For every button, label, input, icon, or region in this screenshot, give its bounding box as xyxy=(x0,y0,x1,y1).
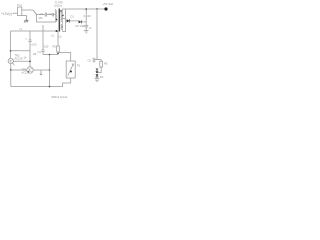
left rail to bottom xyxy=(10,70,12,87)
pot arrow xyxy=(68,64,74,76)
capacitor C1 xyxy=(45,13,46,17)
svg-text:n2: n2 xyxy=(59,34,62,38)
capacitor C6 in x30 line xyxy=(28,31,31,67)
emitter arrow xyxy=(40,70,42,75)
wire Q1 base to x30 xyxy=(14,60,31,62)
wire y70 to Q2 xyxy=(11,69,27,71)
Q1 emitter arrow xyxy=(13,63,15,66)
transformer T1 primary winding xyxy=(56,9,57,22)
wire cap row xyxy=(37,14,56,16)
wire cap to rail xyxy=(95,59,101,61)
junction dot xyxy=(96,72,98,74)
svg-text:0.02: 0.02 xyxy=(32,43,38,47)
phase dot primary xyxy=(56,19,58,21)
svg-text:D4: D4 xyxy=(100,75,104,79)
junction dot x49.5 y70 xyxy=(49,69,51,71)
svg-text:n1: n1 xyxy=(51,33,54,37)
Q2 emitter blob xyxy=(28,71,29,72)
svg-text:0.1/16: 0.1/16 xyxy=(84,14,92,18)
svg-text:+C1: +C1 xyxy=(39,12,44,16)
phase dot secondary mid xyxy=(62,15,63,16)
wire R5 bottom xyxy=(97,60,101,73)
junction dot rail xyxy=(96,8,97,9)
svg-text:C4: C4 xyxy=(38,50,42,54)
diode D4 xyxy=(96,74,99,77)
junction dot bottom xyxy=(49,86,51,88)
regulator box U1 xyxy=(18,7,22,16)
svg-text:s1: s1 xyxy=(61,26,64,29)
svg-text:D1: D1 xyxy=(71,15,75,19)
svg-text:1u: 1u xyxy=(89,27,92,30)
svg-text:R5: R5 xyxy=(104,61,108,65)
junction dot x49.5 xyxy=(49,54,51,56)
switch S1 xyxy=(33,10,37,15)
transformer T1 core xyxy=(59,9,61,32)
svg-text:D2 1N4: D2 1N4 xyxy=(76,24,85,28)
transistor Q1 circle xyxy=(8,58,13,63)
transformer T1 secondary winding xyxy=(61,9,62,32)
junction dot bus core xyxy=(56,30,58,32)
junction dot x58 xyxy=(57,53,59,55)
junction dot left rail xyxy=(10,50,12,52)
svg-text:1k: 1k xyxy=(24,56,27,60)
wire input to box xyxy=(13,12,18,14)
transistor Q1 internals xyxy=(10,60,13,63)
ground C3 xyxy=(84,31,89,34)
svg-text:R6: R6 xyxy=(33,52,37,56)
diode D1 xyxy=(67,19,70,22)
node line y54.5 xyxy=(43,54,58,56)
wire box bottom xyxy=(22,16,27,21)
output node dot xyxy=(104,7,107,10)
wire to ground xyxy=(96,77,98,79)
resistor R5 box xyxy=(100,61,103,67)
svg-text:600x2 circuit: 600x2 circuit xyxy=(52,95,68,99)
pot box P1 xyxy=(66,61,75,78)
bus y31 xyxy=(11,30,59,32)
svg-text:AC128: AC128 xyxy=(15,56,23,60)
wire x43 from bus xyxy=(42,25,45,55)
svg-text:+12V(c)−: +12V(c)− xyxy=(1,12,14,16)
wire to cap C3 xyxy=(81,21,86,23)
svg-text:R3: R3 xyxy=(53,44,57,48)
wire secondary mid tap xyxy=(62,18,65,20)
wire y52.5 to pot xyxy=(58,53,71,62)
wire x49.5 down xyxy=(49,55,51,87)
wire y50.8 xyxy=(11,50,31,52)
capacitor C2 xyxy=(52,13,53,16)
chassis ground xyxy=(24,20,28,22)
capacitor C3 xyxy=(84,22,88,31)
transistor Q2 internals xyxy=(29,68,32,72)
wire Q1 emitter down xyxy=(10,64,12,70)
svg-text:c: c xyxy=(26,38,28,41)
junction dot x30 y61 xyxy=(29,61,31,63)
wire box output xyxy=(22,9,33,11)
phase dot secondary xyxy=(60,10,62,12)
wire secondary top to +V xyxy=(62,8,105,10)
bus 0V y22 xyxy=(37,21,56,23)
svg-text:+5V SAL: +5V SAL xyxy=(103,2,114,6)
wire Q2 emitter right xyxy=(33,69,49,71)
svg-text:c1: c1 xyxy=(20,27,23,31)
transistor Q2 circle xyxy=(27,67,33,73)
resistor R3 xyxy=(57,52,59,55)
pot blob xyxy=(70,71,72,73)
bottom rail xyxy=(11,78,71,87)
wire C3 to +V xyxy=(85,9,87,22)
svg-text:P1: P1 xyxy=(77,64,81,68)
wire diode row xyxy=(66,20,79,22)
svg-text:25v: 25v xyxy=(39,16,44,20)
svg-text:AC127: AC127 xyxy=(22,70,30,74)
junction dot C3 xyxy=(85,8,87,10)
junction dot y70 xyxy=(10,69,12,71)
output cap C5 xyxy=(93,58,95,63)
diode D2 xyxy=(79,20,82,23)
wire secondary right rail xyxy=(62,9,65,32)
zener D3 xyxy=(96,68,99,71)
wire switch down xyxy=(36,14,38,23)
right rail xyxy=(96,9,98,60)
svg-text:2x115v: 2x115v xyxy=(54,3,63,7)
left rail down xyxy=(10,31,12,58)
svg-text:100: 100 xyxy=(44,44,49,48)
svg-text:TL4: TL4 xyxy=(17,3,22,7)
ground right xyxy=(94,79,99,82)
svg-text:C2: C2 xyxy=(49,12,53,16)
svg-text:C5: C5 xyxy=(88,58,92,62)
